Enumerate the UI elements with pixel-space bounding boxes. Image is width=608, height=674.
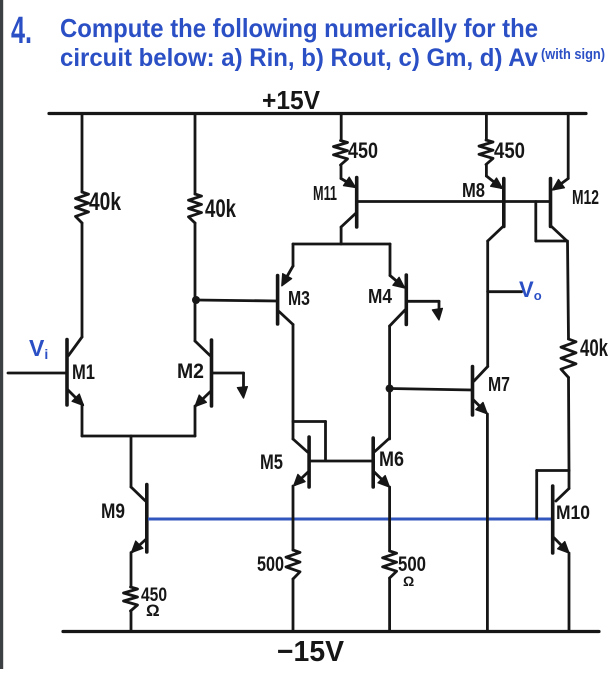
- svg-text:(with sign): (with sign): [541, 46, 605, 63]
- svg-text:M2: M2: [177, 360, 204, 383]
- svg-text:40k: 40k: [580, 335, 608, 362]
- svg-text:M10: M10: [556, 503, 590, 524]
- svg-text:circuit below: a) Rin, b) Rou: circuit below: a) Rin, b) Rout, c) Gm, d…: [60, 44, 538, 72]
- svg-text:M5: M5: [260, 451, 283, 474]
- svg-text:+15V: +15V: [262, 85, 321, 115]
- svg-text:4.: 4.: [11, 10, 32, 52]
- svg-text:Compute the following numerica: Compute the following numerically for th…: [60, 13, 538, 43]
- svg-text:40k: 40k: [89, 188, 121, 216]
- svg-text:M12: M12: [572, 187, 599, 209]
- svg-text:Ω: Ω: [146, 601, 160, 620]
- svg-text:M1: M1: [72, 361, 95, 384]
- svg-text:450: 450: [494, 138, 525, 163]
- svg-text:M3: M3: [288, 288, 310, 310]
- svg-text:M7: M7: [488, 374, 510, 396]
- svg-text:−15V: −15V: [277, 636, 345, 668]
- svg-text:40k: 40k: [205, 195, 236, 223]
- svg-text:M9: M9: [101, 500, 125, 523]
- svg-text:M11: M11: [313, 183, 337, 205]
- svg-text:450: 450: [348, 138, 378, 163]
- svg-text:M6: M6: [379, 448, 404, 471]
- svg-text:M8: M8: [462, 180, 485, 202]
- svg-text:M4: M4: [368, 286, 393, 308]
- svg-text:Ω: Ω: [403, 573, 414, 589]
- svg-text:500: 500: [257, 553, 284, 576]
